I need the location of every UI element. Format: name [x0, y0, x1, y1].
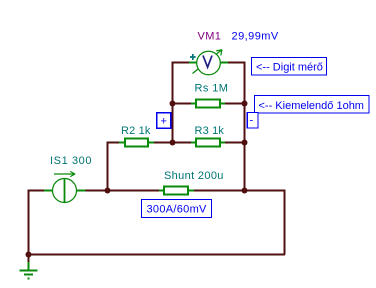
- wire bottom rail: [29, 254, 286, 256]
- annotation box Digit mérő: [252, 58, 327, 76]
- wire VM1 loop left vertical: [172, 62, 174, 143]
- wire VM1 loop right horizontal: [228, 62, 246, 64]
- junction ground: [26, 252, 32, 258]
- resistor Shunt: [159, 187, 194, 195]
- wire IS1 left with corner to ground rail: [29, 191, 45, 256]
- junction Shunt right: [242, 188, 248, 194]
- svg-text:<-- Kiemelendő 1ohm: <-- Kiemelendő 1ohm: [259, 100, 364, 112]
- wire Shunt right to far corner: [194, 191, 285, 255]
- wire Rs left: [173, 103, 192, 105]
- annotation box Kiemelendő 1ohm: [255, 96, 370, 114]
- svg-text:<-- Digit mérő: <-- Digit mérő: [256, 62, 323, 74]
- annotation box 300A/60mV: [142, 200, 212, 218]
- svg-text:VM1: VM1: [198, 31, 222, 43]
- svg-text:IS1 300: IS1 300: [50, 155, 92, 167]
- node marker minus: [247, 113, 258, 129]
- wire R3 right: [225, 142, 246, 144]
- wire R2 to node between R2 R3: [154, 142, 174, 144]
- wire VM1 loop left horizontal: [172, 62, 190, 64]
- svg-text:R3 1k: R3 1k: [195, 125, 225, 137]
- svg-text:+: +: [161, 116, 167, 128]
- svg-text:R2 1k: R2 1k: [121, 125, 151, 137]
- wire R3 left: [173, 142, 192, 144]
- ground: [20, 262, 38, 279]
- wire R2 left with corner from IS1 node: [108, 143, 120, 191]
- junction Rs right: [242, 101, 248, 107]
- wire node to Shunt left: [108, 190, 160, 192]
- junction IS1 Shunt: [105, 188, 111, 194]
- wire ground stub: [28, 255, 30, 263]
- svg-text:-: -: [250, 115, 254, 127]
- node marker plus: [157, 113, 171, 129]
- svg-text:Shunt 200u: Shunt 200u: [164, 170, 224, 182]
- svg-text:300A/60mV: 300A/60mV: [147, 204, 208, 216]
- svg-text:Rs 1M: Rs 1M: [195, 83, 229, 95]
- junction R3 right: [242, 140, 248, 146]
- resistor Rs: [191, 100, 225, 108]
- wire IS1 right to node: [86, 190, 109, 192]
- resistor R2: [119, 139, 154, 147]
- junction Rs left: [170, 101, 176, 107]
- resistor R3: [191, 139, 225, 147]
- wire Rs right: [225, 103, 245, 105]
- voltmeter VM1 symbol: [189, 50, 228, 75]
- current source IS1: [44, 171, 86, 202]
- wire VM1 loop right vertical: [244, 62, 246, 191]
- junction R2 R3: [170, 140, 176, 146]
- svg-text:29,99mV: 29,99mV: [232, 31, 279, 43]
